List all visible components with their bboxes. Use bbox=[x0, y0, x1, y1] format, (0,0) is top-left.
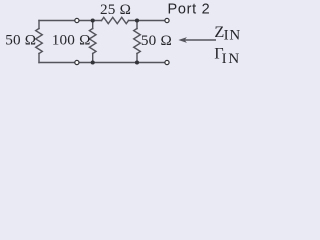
svg-text:25 Ω: 25 Ω bbox=[100, 1, 131, 18]
resistor 100 ohm (vertical zigzag) bbox=[89, 29, 96, 54]
wire top rail bbox=[39, 20, 164, 22]
wire 100-ohm branch leads bbox=[92, 21, 94, 63]
junction dot top of 100 ohm bbox=[91, 18, 95, 22]
wire 50-ohm right branch leads bbox=[136, 21, 138, 63]
wire left vertical leads bbox=[38, 21, 40, 63]
background bbox=[0, 0, 247, 75]
resistor 25 ohm (horizontal zigzag) bbox=[102, 17, 129, 23]
svg-text:IN: IN bbox=[224, 28, 241, 44]
resistor 50 ohm right (vertical zigzag) bbox=[134, 29, 141, 54]
wire bottom rail bbox=[39, 62, 164, 64]
resistor 50 ohm left (vertical zigzag) bbox=[36, 29, 43, 54]
junction dot top of 50 ohm right bbox=[135, 18, 139, 22]
svg-text:50 Ω: 50 Ω bbox=[5, 32, 36, 49]
svg-text:50 Ω: 50 Ω bbox=[141, 32, 172, 49]
svg-text:100 Ω: 100 Ω bbox=[52, 32, 91, 49]
junction dot bottom of 50 ohm right bbox=[135, 60, 139, 64]
Port 2 terminal circle bottom bbox=[165, 60, 169, 64]
svg-text:Port 2: Port 2 bbox=[168, 2, 211, 18]
svg-text:IN: IN bbox=[222, 51, 241, 67]
arrow Z_IN (pointing left) bbox=[178, 37, 216, 43]
junction dot bottom of 100 ohm bbox=[91, 60, 95, 64]
node open circle bottom mid bbox=[75, 60, 79, 64]
Port 2 terminal circle top bbox=[165, 18, 169, 22]
node open circle top mid bbox=[75, 18, 79, 22]
